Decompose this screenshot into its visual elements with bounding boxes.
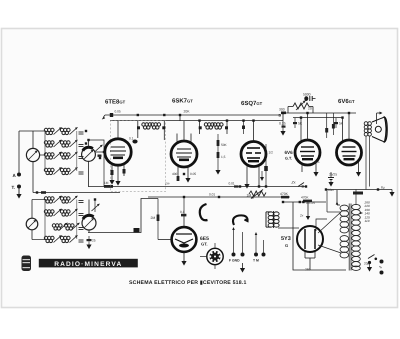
capacitor cathode V1 — [111, 170, 114, 175]
svg-text:250: 250 — [305, 268, 311, 272]
svg-text:1M: 1M — [247, 194, 252, 198]
shield box oscillator (dashed) — [111, 121, 166, 192]
svg-text:10–25: 10–25 — [306, 201, 315, 205]
resistor cathode V2 chain — [217, 134, 228, 170]
label B point — [302, 185, 305, 189]
svg-text:5K: 5K — [339, 122, 344, 126]
wire grid feeds 6V6 — [327, 113, 334, 138]
resistor 2M grid 6E5 — [151, 199, 160, 240]
label 6V6 GT left — [285, 150, 294, 161]
junction dots filament line — [299, 201, 301, 203]
svg-text:T M: T M — [253, 259, 259, 263]
trimmer caps column lower — [79, 201, 84, 243]
IF transformer T1 — [137, 121, 165, 140]
ground below V6 — [181, 261, 186, 266]
coil L3 band3 — [40, 152, 78, 159]
svg-text:0.1: 0.1 — [129, 137, 134, 141]
coil L2 band2 — [44, 140, 77, 147]
svg-text:60m: 60m — [328, 188, 335, 192]
resistor grid V1 — [123, 169, 126, 174]
ground below V4 — [313, 172, 318, 177]
svg-text:0.01: 0.01 — [209, 193, 215, 197]
ground below 25-25 — [330, 180, 332, 183]
terminal strip small — [134, 228, 140, 233]
resistor 470K second — [301, 196, 312, 203]
svg-text:B: B — [302, 185, 305, 189]
speaker — [364, 112, 387, 190]
trimmer osc padder — [92, 198, 100, 212]
ground below V1 cap — [109, 180, 114, 185]
svg-text:20K: 20K — [184, 109, 191, 113]
svg-text:8μ: 8μ — [381, 186, 385, 190]
ground mains cap — [367, 267, 372, 272]
svg-text:2M: 2M — [151, 216, 156, 220]
junction dots left section — [103, 151, 105, 153]
terminal F — [232, 227, 236, 257]
ground below V5 — [356, 172, 361, 177]
svg-text:SCHEMA ELETTRICO PER ▮CEVITORE: SCHEMA ELETTRICO PER ▮CEVITORE 518.1 — [129, 280, 247, 286]
variable capacitor C1a — [26, 131, 39, 193]
ground below V3 — [244, 184, 249, 189]
svg-text:1,5: 1,5 — [315, 160, 320, 164]
cable curved to 6E5 — [200, 204, 208, 220]
junction dots bus2 — [198, 119, 200, 121]
ground below 0.25 — [280, 131, 285, 136]
capacitor 0.1 above 6E5 — [180, 196, 186, 217]
oscillator coil assembly L1 — [19, 127, 78, 134]
labels transformer taps — [364, 201, 370, 224]
capacitor 0.05 at bus left — [110, 110, 121, 118]
wire heater line right — [326, 189, 392, 191]
capacitor 0.1 osc — [129, 137, 138, 144]
ground below GND terminal — [242, 263, 244, 268]
wire HT secondary top — [355, 190, 357, 206]
terminal GND — [241, 232, 245, 257]
svg-text:1M: 1M — [104, 181, 109, 185]
terminal T earth — [12, 185, 22, 195]
svg-text:5Y3: 5Y3 — [281, 236, 291, 242]
capacitor dots below V2 — [172, 172, 196, 181]
svg-text:110: 110 — [365, 219, 370, 223]
wire lower antenna feed — [32, 199, 46, 201]
tube V1 6TE8 converter — [96, 121, 132, 187]
arrow filter feed — [306, 202, 310, 220]
svg-text:Zx: Zx — [291, 181, 296, 185]
junction dot antenna line — [36, 191, 38, 193]
capacitor diode load V3 — [264, 144, 273, 188]
IF transformer T2 — [199, 121, 228, 134]
coil L4 band4 — [44, 131, 77, 175]
label 60m — [325, 188, 335, 192]
5Y3 plate leads — [278, 212, 341, 253]
wire cap gang to V1 grid — [89, 140, 105, 152]
coil L8 — [44, 200, 77, 243]
svg-text:6TE8GT: 6TE8GT — [105, 99, 126, 106]
svg-text:6SQ7GT: 6SQ7GT — [241, 100, 263, 107]
tube V7 5Y3 rectifier — [297, 226, 323, 270]
wire secondary bus — [110, 120, 283, 122]
svg-text:6V6: 6V6 — [285, 150, 294, 155]
trimmer arrow antenna stage — [95, 145, 103, 152]
volume potentiometer 1M — [247, 185, 267, 198]
terminal M phono — [262, 240, 266, 257]
wire ground return bottom — [293, 202, 346, 270]
svg-text:6SK7GT: 6SK7GT — [172, 98, 193, 105]
ground below V2 — [185, 178, 190, 183]
tube V4 6V6 output — [295, 113, 320, 172]
wire top B+ bus — [105, 114, 281, 116]
capacitor 20u mains — [368, 261, 371, 267]
electrolytic 25/25 — [328, 172, 337, 180]
svg-text:25: 25 — [92, 239, 96, 243]
svg-text:0.25: 0.25 — [279, 122, 286, 126]
capacitor 5000 tone — [303, 93, 316, 101]
svg-text:470K: 470K — [280, 192, 289, 196]
resistor 300 B junction — [279, 108, 287, 118]
svg-text:1,5: 1,5 — [221, 155, 226, 159]
junction dots 6V6 bus — [300, 116, 302, 118]
svg-text:50K: 50K — [221, 143, 228, 147]
tube V3 6SQ7 det/af — [241, 121, 266, 187]
wire B+ right segment — [283, 113, 356, 121]
cable curved to phono — [233, 215, 248, 225]
terminal A antenna — [13, 131, 22, 178]
svg-text:F GND: F GND — [229, 259, 240, 263]
capacitor 5K right — [334, 118, 344, 128]
capacitor 0.01 coupling — [229, 181, 242, 187]
coupling cap antenna stage — [98, 155, 102, 157]
tube V6 6E5 tuning eye — [158, 216, 196, 262]
svg-text:B: B — [279, 114, 282, 118]
resistor 20K dropping — [179, 109, 190, 120]
svg-text:2x: 2x — [299, 214, 304, 218]
variable capacitor C2b — [82, 200, 96, 233]
ground below C2b — [86, 245, 91, 250]
label 0.01 mid — [209, 193, 220, 199]
ground below V1 — [115, 181, 120, 186]
wire coil block right join lower — [76, 200, 78, 240]
ground right end heater line — [391, 190, 393, 193]
svg-text:T.: T. — [12, 185, 16, 190]
svg-text:300: 300 — [279, 108, 285, 112]
trimmer caps column upper — [79, 132, 84, 174]
arrow AVC drop — [260, 171, 264, 181]
coil L5 — [44, 196, 77, 203]
wire screen line right — [293, 117, 342, 119]
svg-text:0.05: 0.05 — [115, 110, 121, 114]
svg-text:25/25: 25/25 — [329, 173, 337, 177]
interstage transformer small — [266, 211, 279, 228]
junction bus dots — [137, 114, 139, 116]
power transformer — [327, 190, 363, 271]
svg-text:5K: 5K — [298, 122, 303, 126]
svg-text:6V6GT: 6V6GT — [338, 98, 355, 105]
wire audio line — [148, 196, 290, 198]
coil L7 — [52, 223, 79, 230]
wire filament line — [283, 201, 326, 203]
wire lower-left link — [88, 199, 158, 233]
svg-text:470K: 470K — [301, 196, 309, 200]
coil L6 — [44, 209, 77, 216]
variable capacitor C2a — [26, 200, 46, 240]
junction dots osc coil top — [85, 130, 87, 132]
capacitor 25 below C2b — [87, 236, 96, 245]
ground below chain — [215, 170, 220, 175]
svg-text:G: G — [285, 243, 288, 248]
potentiometer 20K tone — [288, 101, 313, 114]
resistor antenna line — [41, 191, 46, 194]
variable capacitor C1b osc — [82, 140, 96, 187]
capacitor 0.25 — [279, 121, 286, 131]
capacitor padder IFT2 — [242, 119, 245, 134]
wire antenna line — [33, 192, 120, 194]
arrow B+ bus left end — [102, 115, 105, 120]
resistor grid stopper right — [332, 124, 335, 129]
wire coil block right join upper — [76, 131, 78, 171]
wire AVC bus — [88, 186, 306, 188]
mains switch — [364, 255, 384, 275]
tube V5 6V6 output — [337, 113, 362, 172]
resistor 470K — [280, 192, 289, 203]
label 8u cap — [377, 186, 385, 191]
logo Minerva emblem — [22, 256, 32, 272]
capacitor 5K left — [293, 118, 303, 128]
svg-text:GT.: GT. — [201, 242, 208, 247]
resistor grid stopper left — [325, 128, 328, 133]
svg-text:0.01: 0.01 — [229, 181, 235, 185]
tube V2 6SK7 IF amp — [171, 121, 197, 178]
label 250 — [305, 268, 311, 272]
resistor heater line — [353, 192, 363, 195]
svg-text:20: 20 — [308, 107, 312, 111]
resistor 1M on AVC — [104, 181, 113, 188]
terminal T phono — [254, 232, 258, 257]
svg-text:1m: 1m — [165, 181, 170, 185]
svg-text:RADIO·MINERVA: RADIO·MINERVA — [54, 261, 122, 268]
svg-text:0.05: 0.05 — [190, 172, 196, 176]
logo RADIO-MINERVA bar — [39, 259, 138, 268]
switch Zx on pot — [291, 181, 308, 188]
svg-text:G.T.: G.T. — [285, 157, 292, 161]
ground at T — [16, 194, 21, 199]
svg-text:∿: ∿ — [379, 265, 383, 270]
tube socket viewed from below — [200, 243, 223, 269]
svg-text:400: 400 — [172, 172, 178, 176]
svg-text:1/2: 1/2 — [269, 151, 274, 155]
